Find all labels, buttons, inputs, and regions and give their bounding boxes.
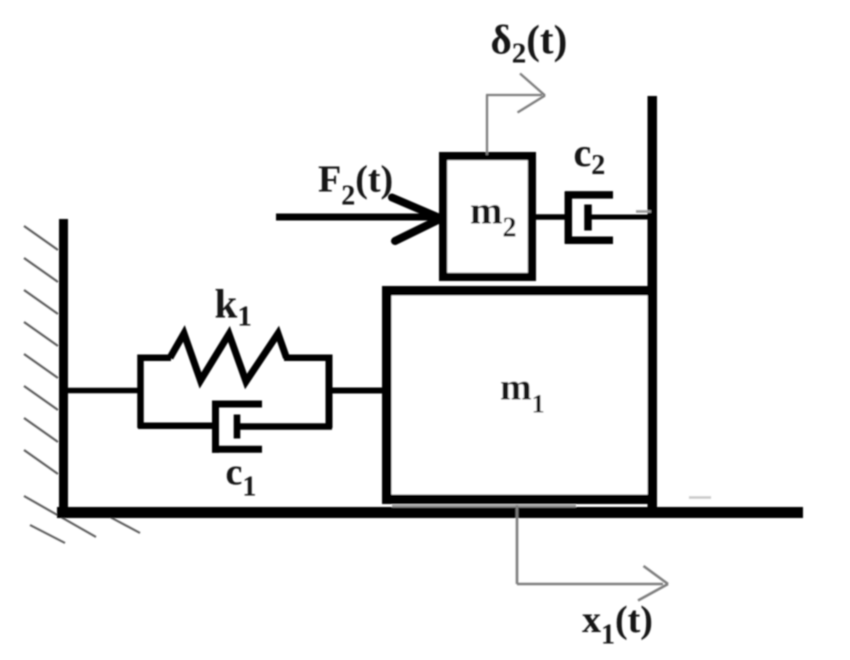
displacement arrow x1(t): vertical: [516, 505, 519, 584]
gray artifact line under m1 bottom: [392, 505, 576, 508]
left wall hatching: [24, 226, 96, 537]
delta2 arrowhead lower barb: [518, 96, 546, 113]
mass m1 box: [387, 291, 653, 500]
ground hatching below floor: [30, 517, 140, 543]
damper c2 cylinder back: [565, 192, 573, 244]
force arrow F2(t) lower barb: [395, 219, 441, 242]
wire: top branch right: [284, 355, 332, 362]
wire: wall to parallel branch: [66, 388, 141, 394]
displacement arrow x1(t): horizontal: [517, 583, 663, 586]
damper c2 top plate: [565, 191, 613, 199]
force arrow F2(t) upper barb: [392, 198, 441, 219]
right wall: [648, 96, 658, 508]
wire: bottom branch left: [138, 423, 216, 430]
spring k1: [170, 334, 287, 382]
damper c2 rod to right wall: [588, 215, 650, 220]
parallel branch right bar: [326, 355, 333, 429]
left wall: [59, 219, 68, 514]
displacement arrow delta2(t): horizontal: [486, 94, 542, 96]
x1 arrowhead upper barb: [644, 566, 669, 584]
delta2 arrowhead upper barb: [520, 74, 545, 96]
displacement arrow delta2(t): vertical: [486, 95, 488, 155]
force arrow F2(t) shaft: [276, 214, 437, 221]
wire: top branch left: [138, 355, 171, 362]
damper c2 piston: [584, 205, 592, 231]
damper c1 top plate: [212, 401, 262, 408]
x1 arrowhead lower barb: [638, 584, 668, 601]
damper c1 rod to right bar: [237, 423, 332, 430]
svg-text:δ2(t): δ2(t): [491, 17, 568, 70]
damper c2 rod from m2: [534, 214, 567, 220]
wire: right bar to mass m1: [326, 388, 385, 394]
floor ground line: [57, 507, 803, 518]
faint gray artifact right of m1: [689, 496, 711, 499]
mass m2 box: [443, 156, 532, 277]
damper c2 bottom plate: [565, 236, 613, 244]
damper c1 cylinder back: [212, 401, 219, 453]
gray artifact near wall: [636, 210, 651, 213]
damper c1 bottom plate: [212, 446, 262, 453]
parallel branch left bar: [137, 355, 144, 429]
damper c1 piston: [234, 415, 241, 439]
